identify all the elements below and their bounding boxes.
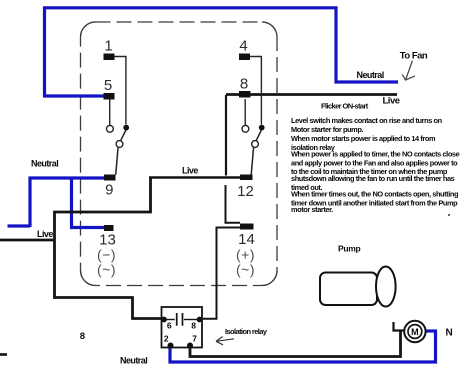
svg-text:and apply power to the Fan and: and apply power to the Fan and also appl… xyxy=(291,158,458,167)
svg-text:When timer times out, the NO c: When timer times out, the NO contacts op… xyxy=(291,190,459,199)
svg-text:8: 8 xyxy=(191,321,196,331)
svg-text:When motor starts power is app: When motor starts power is applied to 14… xyxy=(291,134,436,143)
svg-text:M: M xyxy=(411,327,419,337)
svg-text:9: 9 xyxy=(105,182,113,199)
svg-text:motor starter.: motor starter. xyxy=(291,205,333,214)
svg-text:Neutral: Neutral xyxy=(120,356,147,366)
svg-text:(~): (~) xyxy=(236,262,255,278)
svg-text:Live: Live xyxy=(182,166,198,176)
svg-text:When power is applied to timer: When power is applied to timer, the NO c… xyxy=(291,150,460,159)
svg-text:(−): (−) xyxy=(97,247,116,263)
svg-text:Neutral: Neutral xyxy=(31,159,58,169)
svg-text:6: 6 xyxy=(167,321,172,331)
svg-text:Pump: Pump xyxy=(338,244,361,254)
svg-text:12: 12 xyxy=(237,183,254,200)
svg-text:14: 14 xyxy=(238,231,255,248)
svg-text:(+): (+) xyxy=(236,247,255,263)
svg-text:8: 8 xyxy=(240,76,248,93)
svg-text:1: 1 xyxy=(104,38,112,55)
svg-text:Flicker ON-start: Flicker ON-start xyxy=(321,102,369,111)
svg-text:(~): (~) xyxy=(97,262,116,278)
svg-text:4: 4 xyxy=(239,38,247,55)
svg-text:7: 7 xyxy=(192,334,197,344)
svg-text:N: N xyxy=(446,328,453,339)
svg-text:5: 5 xyxy=(104,77,112,94)
svg-text:To Fan: To Fan xyxy=(400,51,428,62)
svg-text:shutsdown allowing the fan to: shutsdown allowing the fan to run until … xyxy=(291,174,455,183)
svg-text:8: 8 xyxy=(80,331,85,342)
svg-text:Motor starter for pump.: Motor starter for pump. xyxy=(291,125,363,134)
svg-text:Live: Live xyxy=(383,96,400,107)
svg-text:Live: Live xyxy=(37,229,53,239)
svg-text:Neutral: Neutral xyxy=(357,70,384,80)
svg-text:Isolation relay: Isolation relay xyxy=(225,327,268,336)
svg-text:2: 2 xyxy=(164,334,169,344)
svg-text:Level switch makes contact on: Level switch makes contact on rise and t… xyxy=(291,116,443,125)
